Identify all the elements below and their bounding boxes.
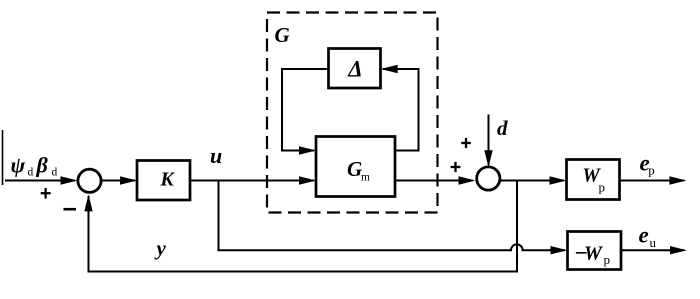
wire: Wp output ep	[620, 176, 687, 184]
wire: -Wp output eu	[621, 246, 687, 254]
summer S1	[78, 169, 101, 192]
label eu	[639, 223, 657, 251]
wire: Gm to summer S2	[395, 176, 476, 184]
svg-text:d: d	[497, 116, 508, 140]
input label psi_d beta_d	[11, 153, 58, 179]
svg-text:K: K	[159, 169, 175, 191]
svg-text:Δ: Δ	[347, 56, 362, 81]
svg-text:u: u	[650, 235, 657, 250]
svg-text:ψ: ψ	[11, 153, 26, 178]
wire: Gm output up into Delta input	[381, 65, 419, 151]
plus sign at S1 reference input	[41, 188, 51, 199]
wire: S2 to weight Wp	[501, 176, 567, 184]
plus sign upper at S2 (disturbance input)	[461, 138, 471, 148]
plant model block Gm	[316, 137, 395, 197]
disturbance d label	[497, 116, 508, 140]
left edge fragment	[2, 130, 4, 185]
wire: u branch down and right to -Wp (hops over feedback line)	[219, 181, 568, 255]
svg-text:u: u	[210, 143, 222, 168]
svg-text:p: p	[599, 180, 606, 195]
svg-text:p: p	[604, 252, 611, 267]
label ep	[640, 151, 655, 178]
svg-text:e: e	[639, 223, 649, 248]
svg-text:W: W	[584, 243, 603, 265]
wire: reference input into summer S1	[5, 176, 78, 184]
svg-text:β: β	[36, 153, 49, 178]
controller block K	[137, 161, 190, 201]
wire: S1 to controller K	[102, 176, 137, 184]
svg-text:m: m	[361, 172, 370, 184]
wire: K output to Gm (node u)	[190, 176, 316, 184]
label G	[275, 23, 290, 47]
minus sign at S1 feedback input	[64, 208, 77, 211]
svg-text:G: G	[347, 157, 362, 181]
summer S2	[477, 167, 500, 190]
svg-text:d: d	[28, 167, 34, 179]
wire: d into summer S2	[484, 115, 492, 168]
svg-text:d: d	[52, 167, 58, 179]
label y	[154, 236, 167, 260]
uncertainty block Delta	[329, 49, 381, 89]
svg-text:G: G	[275, 23, 290, 47]
svg-text:y: y	[154, 236, 167, 260]
weight block -Wp	[568, 232, 622, 270]
wire: Delta output down into Gm	[282, 69, 329, 155]
svg-text:p: p	[648, 163, 655, 178]
weight block Wp	[567, 160, 620, 200]
feedback wire y from plant output back to S1	[84, 181, 517, 272]
plus sign lower at S2 (plant input)	[451, 162, 461, 172]
node u label	[210, 143, 222, 168]
dashed uncertainty boundary G	[267, 13, 438, 213]
